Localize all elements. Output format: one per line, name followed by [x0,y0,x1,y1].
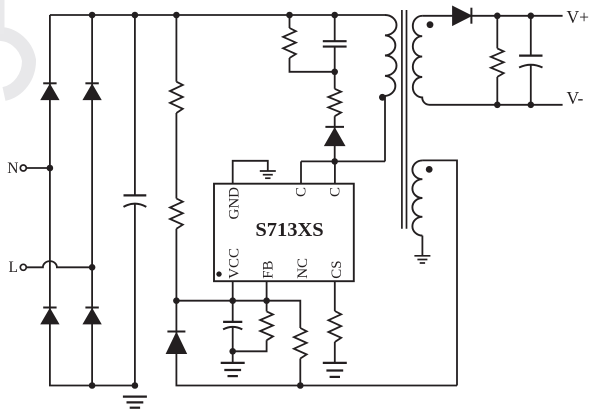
svg-text:V-: V- [567,88,584,108]
svg-text:N: N [7,160,18,177]
svg-text:L: L [9,259,18,276]
svg-text:GND: GND [227,187,243,220]
svg-text:C: C [327,187,343,197]
svg-text:VCC: VCC [227,248,243,279]
svg-text:NC: NC [295,258,311,279]
svg-text:FB: FB [261,260,277,278]
svg-text:S713XS: S713XS [255,219,323,241]
svg-text:V+: V+ [567,7,590,27]
svg-text:C: C [294,187,310,197]
svg-text:CS: CS [329,260,345,278]
